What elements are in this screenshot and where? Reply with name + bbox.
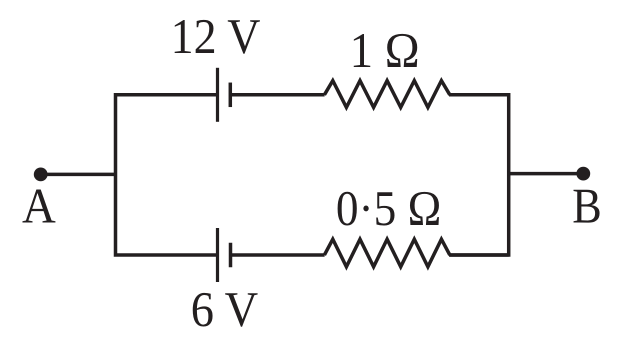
svg-text:B: B (572, 178, 602, 234)
battery V1 (12 V) short plate (-) (229, 83, 233, 108)
wire: resistor R1 to right rail (450, 93, 509, 97)
wire: battery V1 to resistor R1 (230, 93, 324, 97)
svg-text:6 V: 6 V (191, 281, 259, 337)
battery V1 (12 V) long plate (+) (216, 68, 219, 122)
svg-text:12 V: 12 V (171, 8, 261, 64)
node B terminal dot (576, 167, 590, 181)
node A terminal dot (34, 168, 48, 182)
battery V2 (6 V) short plate (-) (229, 243, 233, 268)
wire: right rail with top and bottom branch corners (449, 95, 509, 255)
wire: resistor R2 to right rail (450, 253, 509, 257)
battery V2 (6 V) long plate (+) (216, 228, 219, 282)
svg-text:0·5 Ω: 0·5 Ω (336, 180, 441, 236)
wire: battery V2 to resistor R2 (231, 253, 325, 257)
wire: left rail with top and bottom branch corners (116, 95, 218, 255)
wire: terminal A lead to left rail (41, 173, 117, 177)
svg-text:1 Ω: 1 Ω (350, 22, 420, 78)
wire: right rail to terminal B lead (507, 172, 583, 176)
resistor R1 (1 ohm) zigzag (324, 81, 449, 108)
resistor R2 (0.5 ohm) zigzag (324, 239, 449, 267)
svg-text:A: A (22, 178, 56, 234)
